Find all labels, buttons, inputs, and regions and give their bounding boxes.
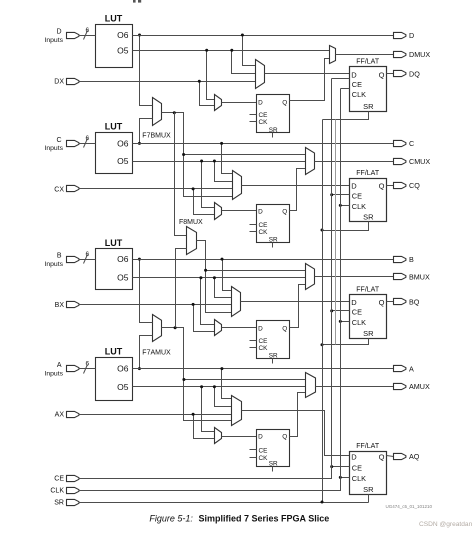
mux outmux D (330, 46, 336, 64)
FF5 D SR stub (272, 133, 274, 138)
wire outmux output to BMUX pad (315, 276, 394, 278)
node B.O5 FF5-mux branch (199, 276, 202, 279)
svg-text:F7AMUX: F7AMUX (142, 350, 171, 357)
svg-text:C: C (56, 137, 61, 144)
svg-text:D: D (351, 298, 357, 307)
svg-text:Figure 5-1:: Figure 5-1: (149, 513, 193, 523)
svg-text:CLK: CLK (352, 474, 366, 483)
svg-text:SR: SR (363, 102, 374, 111)
wire DX to FF input mux (79, 81, 256, 83)
node DX branch (198, 80, 201, 83)
svg-text:O5: O5 (117, 45, 129, 55)
svg-text:CE: CE (352, 307, 362, 316)
wire CX to FF input mux (79, 188, 233, 190)
node C.O5 FF5-mux branch (200, 160, 203, 163)
wire FF/LAT D CE pin (332, 78, 350, 80)
wire A.O5 branch to FF5 input mux (202, 387, 215, 432)
wire DX branch to FF5 input mux (200, 82, 215, 106)
svg-text:CE: CE (259, 112, 268, 119)
wire FF5 mux output to FF5 C D (222, 210, 257, 212)
flip-flop FF5 C (D CE CK SR) (257, 205, 290, 244)
FF/LAT C (D CE CLK SR) (350, 170, 387, 222)
wire D.O6 to F7BMUX input (140, 36, 153, 106)
wire CE net (79, 79, 332, 479)
svg-text:SR: SR (363, 329, 374, 338)
svg-text:Q: Q (379, 71, 385, 80)
output pad CMUX (394, 157, 431, 166)
svg-text:CE: CE (352, 191, 362, 200)
FF/LAT D (D CE CLK SR) (350, 59, 387, 112)
mux FF5 input mux C (215, 203, 222, 220)
svg-text:CK: CK (259, 229, 269, 236)
node F7BMUX-C outmux branch (182, 153, 185, 156)
svg-text:6: 6 (86, 27, 90, 34)
LUT C (96, 122, 133, 174)
wire FF5 B Q to outmux (290, 285, 306, 328)
node SR net tap B (321, 343, 324, 346)
wire F8MUX output to B outmux (197, 241, 306, 271)
cropped header text artifact (133, 0, 141, 3)
output pad CQ (394, 181, 421, 190)
svg-text:A: A (57, 362, 62, 369)
svg-text:UG474_c5_01_101210: UG474_c5_01_101210 (386, 504, 433, 509)
wire SR vertical (322, 120, 324, 503)
mux F7AMUX (142, 315, 171, 357)
svg-text:6: 6 (86, 360, 90, 367)
wire outmux output to AMUX pad (316, 386, 394, 388)
FF5 D CE stub (250, 114, 257, 116)
svg-text:SR: SR (363, 213, 374, 222)
mux FF5 input mux A (215, 428, 222, 444)
wire C.O5 branch to FF5 input mux (202, 162, 215, 208)
wire FF/LAT C Q to CQ pad (387, 185, 394, 187)
svg-text:CK: CK (259, 345, 269, 352)
svg-text:SR: SR (54, 500, 64, 507)
mux FF5 input mux B (215, 320, 222, 336)
node A.O5 FF-mux branch (213, 385, 216, 388)
flip-flop FF5 B (D CE CK SR) (257, 321, 290, 360)
svg-text:DMUX: DMUX (409, 50, 430, 59)
svg-text:LUT: LUT (105, 347, 123, 357)
wire FF/LAT C SR pin to SR net (323, 222, 369, 231)
wire F7BMUX output to F8MUX input (175, 113, 187, 236)
svg-text:D: D (409, 31, 414, 40)
wire FF/LAT B CE pin (332, 310, 350, 312)
node AX branch (192, 413, 195, 416)
svg-text:CMUX: CMUX (409, 157, 430, 166)
mux F7BMUX (142, 98, 171, 140)
svg-text:Q: Q (379, 453, 385, 462)
wire C.O6 to C output (133, 143, 394, 145)
svg-text:BMUX: BMUX (409, 273, 430, 282)
output pad DMUX (394, 50, 431, 59)
svg-text:O6: O6 (117, 30, 129, 40)
svg-text:A: A (409, 364, 414, 373)
wire B.O5 branch to FF input mux (215, 278, 232, 298)
svg-text:D: D (351, 71, 357, 80)
svg-text:SR: SR (269, 353, 278, 360)
node B.O5 FF-mux branch (213, 276, 216, 279)
wire A.O5 branch to FF input mux (215, 387, 232, 407)
mux FF5 input mux D (215, 95, 222, 111)
svg-text:Q: Q (282, 99, 287, 106)
wire outmux output to DMUX pad (336, 54, 394, 56)
wire FF/LAT B CLK pin (341, 321, 350, 323)
wire F7AMUX output to A outmux (162, 328, 306, 380)
wire FF mux output to FF/LAT A D (242, 411, 350, 456)
wire FF/LAT A CLK pin (341, 477, 350, 479)
node B.O6 FF-mux branch (221, 258, 224, 261)
input pad A Inputs (6-bit bus) (44, 360, 95, 377)
wire F7AMUX output to A FF input mux (184, 380, 232, 421)
svg-text:6: 6 (86, 251, 90, 258)
svg-text:C: C (409, 139, 414, 148)
wire D.O5 branch to FF input mux (232, 51, 256, 74)
svg-text:CK: CK (259, 455, 269, 462)
wire FF/LAT D CLK pin (341, 88, 350, 90)
wire B.O6 to F7AMUX input (140, 260, 153, 323)
svg-text:Q: Q (282, 434, 287, 441)
wire A.O6 to F7AMUX input (140, 336, 153, 369)
svg-text:SR: SR (269, 237, 278, 244)
svg-text:DQ: DQ (409, 69, 420, 78)
svg-text:Simplified 7 Series FPGA Slice: Simplified 7 Series FPGA Slice (199, 513, 330, 523)
wire SR auxiliary vertical (335, 120, 337, 345)
mux outmux A (306, 373, 316, 398)
svg-text:CLK: CLK (50, 488, 64, 495)
wire B.O5 to outmux (133, 277, 306, 279)
wire FF/LAT A Q to AQ pad (387, 456, 394, 457)
svg-text:CLK: CLK (352, 90, 366, 99)
wire A.O6 to A output (133, 368, 394, 370)
wire CX branch to FF5 input mux (194, 189, 215, 215)
svg-text:FF/LAT: FF/LAT (356, 286, 380, 293)
svg-text:D: D (258, 209, 263, 216)
FF5 B CK stub (250, 347, 257, 349)
svg-text:D: D (56, 29, 61, 36)
svg-text:BX: BX (55, 302, 65, 309)
LUT D (96, 14, 133, 68)
svg-text:DX: DX (54, 79, 64, 86)
wire FF5 mux output to FF5 A D (222, 436, 257, 438)
wire F8MUX output to B FF input mux (206, 271, 232, 313)
svg-text:CE: CE (352, 464, 362, 473)
svg-text:SR: SR (269, 460, 278, 467)
svg-text:D: D (351, 453, 357, 462)
wire outmux output to CMUX pad (315, 161, 394, 163)
FF5 D CK stub (250, 121, 257, 123)
input pad BX (55, 301, 79, 309)
svg-text:CSDN @greatdan: CSDN @greatdan (419, 521, 473, 528)
wire FF5 D Q to outmux (290, 59, 330, 101)
wire FF/LAT D SR pin to SR net (323, 112, 369, 120)
svg-text:Inputs: Inputs (44, 370, 63, 377)
wire FF/LAT B Q to BQ pad (387, 301, 394, 303)
wire D.O6 to D output (133, 35, 394, 37)
input pad DX (54, 78, 79, 85)
svg-text:Inputs: Inputs (44, 261, 63, 268)
output pad DQ (394, 69, 421, 78)
FF5 B SR stub (272, 359, 274, 364)
node CLK net tap C (339, 204, 342, 207)
mux outmux C (306, 148, 315, 175)
svg-text:CE: CE (259, 448, 268, 455)
wire FF/LAT D Q to DQ pad (387, 73, 394, 75)
node CE net tap A (330, 465, 333, 468)
output pad BQ (394, 297, 420, 306)
FF5 A CE stub (250, 449, 257, 451)
input pad D Inputs (6-bit bus) (44, 27, 95, 44)
wire A.O5 to outmux (133, 386, 306, 388)
wire B.O6 to B output (133, 259, 394, 261)
wire FF/LAT A CE pin (332, 466, 350, 468)
input pad CE (54, 475, 79, 482)
node SR net tap C (321, 229, 324, 232)
FF5 B CE stub (250, 340, 257, 342)
svg-text:SR: SR (363, 485, 374, 494)
wire B.O6 branch to FF input mux (223, 260, 232, 291)
wire BX to FF input mux (79, 304, 232, 306)
input pad SR (54, 499, 79, 506)
wire FF mux output to FF/LAT C D (242, 185, 350, 187)
wire B.O5 branch to FF5 input mux (201, 278, 215, 325)
node C.O5 FF-mux branch (213, 160, 216, 163)
svg-text:CQ: CQ (409, 181, 420, 190)
wire D.O5 to outmux (133, 50, 330, 52)
node A.O6 branch (138, 367, 141, 370)
svg-text:CE: CE (259, 222, 268, 229)
mux FF/LAT input mux C (233, 171, 242, 200)
output pad AMUX (394, 382, 430, 391)
svg-text:Q: Q (282, 325, 287, 332)
svg-text:Q: Q (282, 209, 287, 216)
FF5 C CK stub (250, 231, 257, 233)
wire A.O6 branch to FF input mux (222, 369, 232, 399)
LUT B (96, 238, 133, 290)
svg-text:F8MUX: F8MUX (179, 219, 203, 226)
svg-text:CLK: CLK (352, 202, 366, 211)
svg-text:FF/LAT: FF/LAT (356, 443, 380, 450)
node F7AMUX output branch (174, 326, 177, 329)
wire AX branch to FF5 input mux (194, 415, 215, 439)
svg-text:SR: SR (269, 127, 278, 134)
svg-text:O5: O5 (117, 273, 129, 283)
wire FF mux output to FF/LAT D D (265, 73, 350, 75)
svg-text:CE: CE (54, 476, 64, 483)
node B.O6 branch (138, 258, 141, 261)
node C.O6 branch (138, 142, 141, 145)
svg-text:O5: O5 (117, 156, 129, 166)
wire FF/LAT C CE pin (332, 194, 350, 196)
wire FF5 mux output to FF5 D D (222, 102, 257, 104)
wire C.O6 branch to FF input mux (222, 144, 233, 174)
FF5 A SR stub (272, 467, 274, 472)
wire FF5 A Q to outmux (290, 393, 306, 437)
LUT A (96, 347, 133, 401)
node D.O5 FF-mux branch (230, 49, 233, 52)
node CE net tap B (330, 309, 333, 312)
output pad A (394, 364, 415, 373)
output pad BMUX (394, 273, 430, 282)
wire C.O5 branch to FF input mux (215, 162, 233, 182)
node CX branch (192, 187, 195, 190)
input pad AX (55, 411, 79, 418)
mux outmux B (306, 264, 315, 290)
node SR corner (321, 501, 324, 504)
output pad B (394, 255, 415, 264)
flip-flop FF5 A (D CE CK SR) (257, 430, 290, 468)
node D.O5 FF5-mux branch (205, 49, 208, 52)
svg-text:BQ: BQ (409, 297, 420, 306)
svg-text:AX: AX (55, 412, 65, 419)
node CLK net tap B (339, 320, 342, 323)
node A.O5 FF5-mux branch (200, 385, 203, 388)
svg-text:Inputs: Inputs (44, 37, 63, 44)
wire D.O5 branch to FF5 input mux (207, 51, 215, 100)
node BX branch (192, 303, 195, 306)
svg-text:FF/LAT: FF/LAT (356, 170, 380, 177)
svg-text:B: B (409, 255, 414, 264)
node D.O6 FF-mux branch (241, 34, 244, 37)
svg-text:O5: O5 (117, 382, 129, 392)
wire FF5 C Q to outmux (290, 169, 306, 211)
wire FF/LAT A SR pin to SR net (368, 495, 370, 503)
mux FF/LAT input mux A (232, 396, 242, 426)
output pad C (394, 139, 415, 148)
svg-text:AMUX: AMUX (409, 382, 430, 391)
wire FF/LAT C CLK pin (341, 205, 350, 207)
svg-text:O6: O6 (117, 138, 129, 148)
svg-text:F7BMUX: F7BMUX (142, 132, 171, 139)
FF5 C CE stub (250, 224, 257, 226)
mux FF/LAT input mux B (232, 287, 241, 317)
svg-text:D: D (258, 434, 263, 441)
svg-text:Q: Q (379, 182, 385, 191)
mux FF/LAT input mux D (256, 60, 265, 89)
wire D.O6 branch to FF input mux (243, 36, 256, 66)
input pad CLK (50, 487, 79, 494)
wire SR bottom line (79, 502, 369, 504)
svg-text:AQ: AQ (409, 452, 420, 461)
svg-text:LUT: LUT (105, 238, 123, 248)
node F7BMUX output branch (173, 111, 176, 114)
svg-text:D: D (351, 182, 357, 191)
wire C.O5 to outmux (133, 161, 306, 163)
svg-text:6: 6 (86, 135, 90, 142)
svg-text:CE: CE (259, 338, 268, 345)
wire C.O6 to F7BMUX input (140, 119, 153, 144)
wire FF5 mux output to FF5 B D (222, 327, 257, 329)
wire AX to FF input mux (79, 414, 232, 416)
svg-text:Inputs: Inputs (44, 145, 63, 152)
output pad D (394, 31, 415, 40)
svg-text:LUT: LUT (105, 122, 123, 132)
svg-text:D: D (258, 99, 263, 106)
svg-text:CE: CE (352, 80, 362, 89)
svg-text:D: D (258, 325, 263, 332)
FF5 C SR stub (272, 243, 274, 248)
wire CLK net (79, 89, 341, 491)
node D.O6 branch (138, 34, 141, 37)
wire F7BMUX output to C FF input mux (184, 155, 233, 197)
wire F7AMUX output to F8MUX input (176, 249, 187, 328)
node CE net tap C (330, 193, 333, 196)
node CLK net tap A (339, 476, 342, 479)
caption Figure 5-1 (149, 513, 329, 523)
svg-text:Q: Q (379, 298, 385, 307)
svg-text:CK: CK (259, 119, 269, 126)
svg-text:O6: O6 (117, 254, 129, 264)
input pad CX (54, 185, 79, 193)
svg-text:LUT: LUT (105, 14, 123, 24)
output pad AQ (394, 452, 420, 461)
input pad B Inputs (6-bit bus) (44, 251, 95, 268)
node A.O6 FF-mux branch (220, 367, 223, 370)
svg-text:O6: O6 (117, 364, 129, 374)
flip-flop FF5 D (D CE CK SR) (257, 95, 290, 134)
input pad C Inputs (6-bit bus) (44, 135, 95, 152)
node F7AMUX-A outmux branch (182, 378, 185, 381)
FF5 A CK stub (250, 457, 257, 459)
svg-text:B: B (57, 253, 62, 260)
svg-text:CLK: CLK (352, 318, 366, 327)
mux F8MUX (179, 219, 203, 255)
FF/LAT B (D CE CLK SR) (350, 286, 387, 338)
FF/LAT A (D CE CLK SR) (350, 443, 387, 495)
wire BX branch to FF5 input mux (194, 305, 215, 332)
svg-text:CX: CX (54, 186, 64, 193)
node C.O6 FF-mux branch (220, 142, 223, 145)
wire FF mux output to FF/LAT B D (241, 301, 350, 303)
svg-text:FF/LAT: FF/LAT (356, 59, 380, 66)
wire FF/LAT B SR pin to SR net (323, 339, 369, 345)
wire F7BMUX output to C outmux (162, 113, 306, 155)
node F8MUX-B outmux branch (204, 269, 207, 272)
